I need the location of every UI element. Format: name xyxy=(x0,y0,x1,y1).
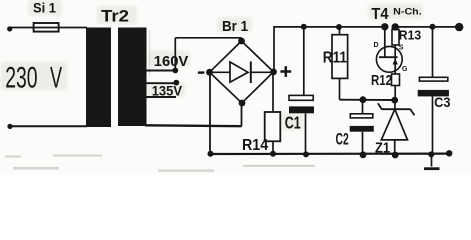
svg-text:C3: C3 xyxy=(434,95,450,111)
svg-text:230: 230 xyxy=(5,62,37,95)
svg-text:R12: R12 xyxy=(371,73,392,89)
svg-text:C1: C1 xyxy=(285,112,301,132)
svg-text:V: V xyxy=(50,62,62,95)
svg-text:135V: 135V xyxy=(152,84,182,99)
svg-text:R11: R11 xyxy=(323,50,347,67)
svg-text:C2: C2 xyxy=(336,131,349,149)
svg-text:160V: 160V xyxy=(154,53,189,70)
svg-text:R14: R14 xyxy=(242,137,268,154)
svg-text:S: S xyxy=(399,45,404,52)
svg-text:R13: R13 xyxy=(399,28,421,43)
svg-text:T4: T4 xyxy=(371,6,388,23)
svg-text:N-Ch.: N-Ch. xyxy=(393,6,422,17)
svg-text:Z1: Z1 xyxy=(375,141,390,157)
svg-text:Si 1: Si 1 xyxy=(33,1,56,16)
svg-text:Br 1: Br 1 xyxy=(222,19,248,35)
svg-text:G: G xyxy=(402,66,408,73)
svg-text:Tr2: Tr2 xyxy=(101,8,129,26)
svg-text:D: D xyxy=(374,42,379,49)
